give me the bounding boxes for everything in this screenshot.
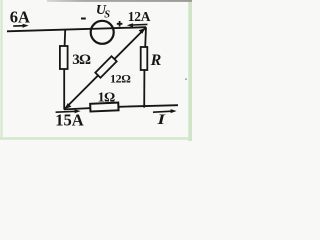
svg-text:I: I: [156, 112, 166, 128]
svg-text:1Ω: 1Ω: [98, 90, 115, 105]
scan speck: [185, 78, 187, 80]
wire: right vertical branch: [144, 27, 147, 47]
svg-text:12Ω: 12Ω: [110, 72, 131, 86]
svg-text:12A: 12A: [128, 9, 151, 24]
svg-text:3Ω: 3Ω: [72, 52, 91, 68]
svg-text:R: R: [150, 52, 162, 69]
wire: bottom horizontal: [64, 105, 178, 109]
paper background: [0, 0, 192, 141]
current arrow 12A: [132, 23, 147, 26]
current arrow 15A: [56, 110, 76, 113]
svg-text:S: S: [104, 9, 110, 20]
resistor R: [141, 47, 148, 70]
wire: left vertical branch: [64, 30, 67, 46]
arrowhead diagonal bottom-left: [65, 103, 72, 109]
wire: top horizontal: [7, 27, 146, 31]
svg-text:15A: 15A: [55, 110, 83, 129]
resistor 3ohm: [60, 46, 68, 69]
current arrow 6A: [13, 25, 24, 27]
svg-text:6A: 6A: [10, 7, 30, 26]
polarity plus: [117, 21, 123, 27]
resistor 1ohm: [90, 103, 118, 112]
current arrow I: [153, 111, 172, 112]
resistor 12ohm diagonal: [95, 56, 116, 77]
arrowhead diagonal top-right: [139, 28, 146, 34]
wire: diagonal branch: [64, 27, 146, 109]
polarity minus: [81, 18, 86, 20]
voltage source U_S: [91, 21, 114, 44]
